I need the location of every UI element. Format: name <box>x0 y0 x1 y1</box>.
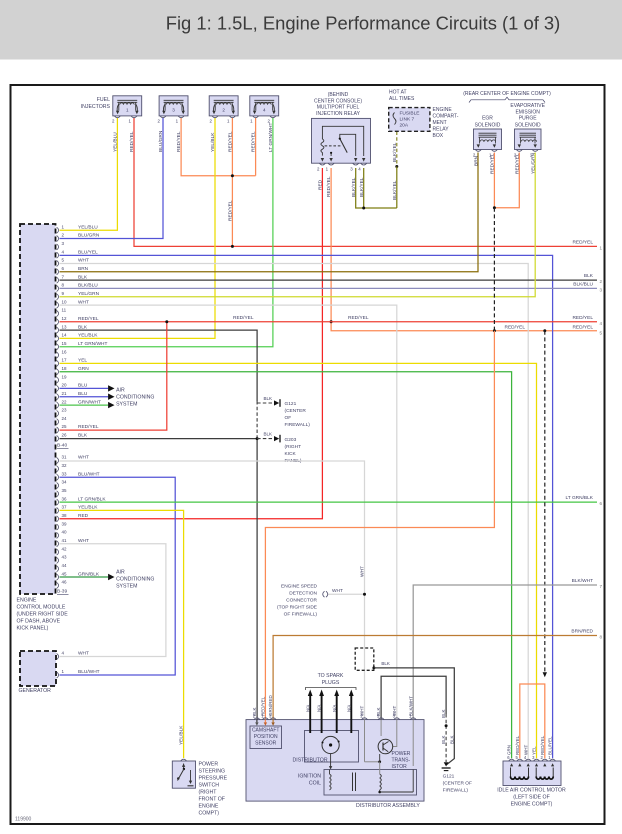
solenoid pin 2 <box>516 150 522 152</box>
svg-text:YEL: YEL <box>532 746 537 755</box>
distributor pin 5 <box>378 718 384 720</box>
svg-text:ALL TIMES: ALL TIMES <box>389 96 415 102</box>
relay link dashed <box>325 145 342 147</box>
svg-text:RED: RED <box>318 179 324 190</box>
solenoid pin 1 <box>491 150 497 152</box>
ECM pin 32 <box>57 466 59 472</box>
svg-text:WHT: WHT <box>78 455 89 461</box>
svg-text:ENGINE: ENGINE <box>433 107 453 113</box>
svg-text:4: 4 <box>263 108 266 113</box>
svg-text:RED/YEL: RED/YEL <box>540 735 545 755</box>
svg-text:20A: 20A <box>400 123 409 129</box>
svg-text:YEL/BLK: YEL/BLK <box>78 333 98 339</box>
injector pin 2 <box>114 116 120 118</box>
svg-text:RED/YEL: RED/YEL <box>505 324 526 330</box>
svg-text:DISTRIBUTOR: DISTRIBUTOR <box>293 757 328 763</box>
junction pin25 on line4 <box>165 320 168 323</box>
svg-text:BLK/YEL: BLK/YEL <box>359 177 365 197</box>
svg-text:YEL/BLU: YEL/BLU <box>78 224 98 230</box>
svg-text:44: 44 <box>62 563 68 568</box>
spark plug wire 1 <box>309 695 311 733</box>
ECM pin 13 BLK <box>57 327 59 333</box>
svg-text:SYSTEM: SYSTEM <box>116 583 137 589</box>
wire BLU/YEL ECM pin4 to IAC pin1 <box>60 255 553 758</box>
svg-text:EMISSION: EMISSION <box>515 109 540 115</box>
wire YEL ECM pin17 to IAC pin3 <box>60 363 537 758</box>
svg-text:BLK/YEL: BLK/YEL <box>351 177 357 197</box>
svg-text:BLU/YEL: BLU/YEL <box>548 736 553 755</box>
svg-text:BOX: BOX <box>433 133 444 139</box>
svg-text:COMPT): COMPT) <box>199 810 220 816</box>
svg-text:PRESSURE: PRESSURE <box>199 775 228 781</box>
svg-text:BLK: BLK <box>264 396 273 401</box>
svg-text:GRN/WHT: GRN/WHT <box>78 399 101 405</box>
junction relay RED/YEL on line4 <box>330 320 333 323</box>
ECM pin 10 WHT <box>57 302 59 308</box>
svg-text:32: 32 <box>62 463 68 468</box>
arrow AC pin45 <box>108 574 114 580</box>
IAC pin 4 WHT <box>525 759 531 761</box>
svg-text:13: 13 <box>62 324 68 329</box>
svg-text:(BEHIND: (BEHIND <box>328 92 349 98</box>
svg-text:OF: OF <box>285 415 292 421</box>
wire WHT engine speed detection stub <box>328 593 365 595</box>
svg-text:WHT: WHT <box>523 745 528 755</box>
wire LT GRN/WHT injector4 pin2 to ECM pin15 <box>60 118 273 347</box>
svg-text:10: 10 <box>62 299 68 304</box>
svg-text:WHT: WHT <box>332 588 343 594</box>
svg-text:B-40: B-40 <box>57 443 67 449</box>
junction BLK splice G121 <box>445 724 448 727</box>
ECM pin 20 BLU <box>57 385 59 391</box>
ECM pin 44 <box>57 566 59 572</box>
svg-text:LT GRN/BLK: LT GRN/BLK <box>565 495 593 501</box>
junction EGR EVAP splice <box>493 206 496 209</box>
svg-text:19: 19 <box>62 374 68 379</box>
svg-text:GENERATOR: GENERATOR <box>19 688 52 694</box>
svg-text:BLK/BLU: BLK/BLU <box>78 283 98 289</box>
svg-text:BLK/BLU: BLK/BLU <box>573 281 593 287</box>
wire GRN/BLK ECM pin45 to AC <box>60 576 109 578</box>
junction dashed on line5 <box>493 329 496 332</box>
header band <box>0 0 622 60</box>
svg-text:N/A: N/A <box>346 705 351 712</box>
svg-text:SENSOR: SENSOR <box>255 740 277 746</box>
svg-text:IGNITION: IGNITION <box>298 774 321 780</box>
camshaft pin stubs <box>256 720 258 723</box>
svg-text:BLK: BLK <box>381 661 390 666</box>
svg-text:RED/YEL: RED/YEL <box>78 424 99 430</box>
PSP switch contacts <box>183 768 185 770</box>
junction line1 splice <box>231 245 234 248</box>
svg-text:3: 3 <box>172 108 175 113</box>
ECM pin 11 <box>57 311 59 317</box>
wire BLK/WHT distributor pin1 to right edge line 7 <box>413 585 597 720</box>
svg-text:43: 43 <box>62 555 68 560</box>
fusible link symbol <box>393 113 396 125</box>
wire RED/YEL EVAP pin2 drop <box>494 153 519 208</box>
wire BLU ECM pin21 to AC <box>60 396 109 398</box>
distributor pin 1 <box>410 718 416 720</box>
ECM pin 40 <box>57 532 59 538</box>
svg-text:RED/YEL: RED/YEL <box>261 696 266 716</box>
svg-text:G203: G203 <box>285 437 297 443</box>
wire RED/YEL line5 to camshaft sensor pin1 <box>265 331 494 720</box>
svg-text:WHT: WHT <box>392 706 397 716</box>
svg-text:EVAPORATIVE: EVAPORATIVE <box>510 103 545 109</box>
junction BLK/YEL pin4 <box>362 207 365 210</box>
distributor assembly box <box>246 720 424 802</box>
svg-text:38: 38 <box>62 513 68 518</box>
generator pin 1 BLU/WHT <box>57 672 59 678</box>
ECM pin 18 GRN <box>57 369 59 375</box>
IAC coil A <box>510 768 512 777</box>
svg-text:YEL/GRN: YEL/GRN <box>530 152 536 174</box>
relay pin 2 <box>319 163 325 165</box>
svg-text:FIREWALL): FIREWALL) <box>443 788 469 794</box>
distributor circle <box>322 736 339 753</box>
ECM pin 38 RED <box>57 516 59 522</box>
relay coil <box>321 139 324 156</box>
svg-text:18: 18 <box>62 366 68 371</box>
svg-text:(RIGHT: (RIGHT <box>199 789 218 795</box>
svg-text:15: 15 <box>62 341 68 346</box>
svg-text:COMPART-: COMPART- <box>433 114 459 120</box>
ECM pin 24 <box>57 419 59 425</box>
svg-text:CENTER CONSOLE): CENTER CONSOLE) <box>314 99 362 105</box>
wire RED/YEL EGR pin1 drop <box>493 153 495 208</box>
wire BLK dashed line5 to IAC <box>544 331 546 672</box>
wire WHT ECM pin10 to distributor pin3 <box>60 305 397 719</box>
svg-text:CONDITIONING: CONDITIONING <box>116 394 154 400</box>
ECM pin 42 <box>57 549 59 555</box>
svg-text:SOLENOID: SOLENOID <box>515 122 541 128</box>
wire WHT ECM pin5 to IAC pin4 <box>60 264 529 759</box>
svg-text:BLU/WHT: BLU/WHT <box>78 669 100 675</box>
svg-text:WHT: WHT <box>360 566 366 577</box>
ECM pin 12 RED/YEL <box>57 319 59 325</box>
wire RED/YEL IAC pins 2 and 5 <box>520 684 545 758</box>
bracket to spark plugs <box>306 688 357 691</box>
svg-text:WHT: WHT <box>360 706 365 716</box>
svg-text:(UNDER RIGHT SIDE: (UNDER RIGHT SIDE <box>17 612 69 618</box>
PSP switch box <box>172 761 195 788</box>
wire YEL/BLK ECM pin37 to PSP switch <box>60 510 184 758</box>
relay pin 4 <box>361 163 367 165</box>
svg-text:RED/YEL: RED/YEL <box>572 325 593 331</box>
ECM pin 16 <box>57 352 59 358</box>
svg-text:21: 21 <box>62 391 68 396</box>
svg-text:COIL: COIL <box>309 781 321 787</box>
injector pin 2 <box>212 116 218 118</box>
svg-text:GRN: GRN <box>507 745 512 755</box>
svg-text:POWER: POWER <box>199 761 219 767</box>
ECM pin 26 BLK <box>57 435 59 441</box>
spark plug wire 3 <box>336 695 338 733</box>
svg-text:INJECTION RELAY: INJECTION RELAY <box>316 111 360 117</box>
svg-text:42: 42 <box>62 546 68 551</box>
distributor pin leads <box>364 720 366 762</box>
svg-text:WHT: WHT <box>78 538 89 544</box>
svg-text:RED/YEL: RED/YEL <box>251 131 257 152</box>
injector pin 2 <box>160 116 166 118</box>
ECM pin 39 <box>57 524 59 530</box>
svg-text:POSITION: POSITION <box>254 734 278 740</box>
wire BLU/GRN injector3 pin2 to ECM pin2 <box>60 118 164 239</box>
junction transistor emitter <box>378 760 381 763</box>
svg-text:40: 40 <box>62 530 68 535</box>
wire BLK dashed EGR drop to line5 <box>493 208 495 331</box>
svg-text:BLK: BLK <box>264 432 273 437</box>
svg-text:CONTROL MODULE: CONTROL MODULE <box>17 605 66 611</box>
svg-text:35: 35 <box>62 488 68 493</box>
svg-text:HOT AT: HOT AT <box>389 90 407 96</box>
ECM box <box>20 224 56 594</box>
svg-text:RED/YEL: RED/YEL <box>326 176 332 197</box>
svg-text:LT GRN/WHT: LT GRN/WHT <box>78 341 107 347</box>
svg-text:RED/YEL: RED/YEL <box>514 153 520 174</box>
svg-text:YEL/BLK: YEL/BLK <box>179 725 185 745</box>
injector pin 2 <box>270 116 276 118</box>
ignition coil secondary <box>380 774 382 778</box>
relay box <box>312 118 371 163</box>
svg-text:39: 39 <box>62 521 68 526</box>
ECM pin 46 <box>57 582 59 588</box>
svg-text:BLK: BLK <box>252 707 257 716</box>
wire LT GRN/BLK ECM pin36 to right edge line 6 <box>60 501 598 503</box>
fuel injector 4 <box>250 96 279 116</box>
solenoid pin 1 <box>532 150 538 152</box>
svg-text:46: 46 <box>62 580 68 585</box>
svg-text:SOLENOID: SOLENOID <box>475 122 501 128</box>
ECM pin 6 BRN <box>57 269 59 275</box>
ignition coil core <box>352 773 354 792</box>
svg-text:CAMSHAFT: CAMSHAFT <box>252 728 280 734</box>
svg-text:YEL/GRN: YEL/GRN <box>78 291 100 297</box>
svg-text:YEL: YEL <box>78 358 87 364</box>
wire BLK/YEL fusible link drop solid <box>396 167 398 209</box>
svg-text:RELAY: RELAY <box>433 127 450 133</box>
svg-text:2: 2 <box>222 108 225 113</box>
wire RED/YEL relay pin1 to right edge line 5 <box>331 168 597 331</box>
wire BLK ECM pin7 to right edge line 2 <box>60 279 598 281</box>
svg-text:FUEL: FUEL <box>97 97 110 103</box>
junction injector RED/YEL splice <box>231 174 234 177</box>
svg-text:DETECTION: DETECTION <box>289 591 317 597</box>
svg-text:ENGINE COMPT): ENGINE COMPT) <box>511 801 553 807</box>
ECM pin 23 <box>57 410 59 416</box>
svg-text:BLK: BLK <box>78 433 88 439</box>
junction speed detection tap <box>363 593 366 596</box>
svg-text:STEERING: STEERING <box>199 768 226 774</box>
svg-text:BLK: BLK <box>449 735 454 744</box>
ECM pin 41 WHT <box>57 541 59 547</box>
wire BLK dashed to G121 lower <box>445 714 447 762</box>
svg-text:BLU/GRN: BLU/GRN <box>158 130 164 152</box>
spark plug wire 2 <box>321 695 323 733</box>
camshaft pin arrows <box>255 722 258 725</box>
camshaft sensor pin 3 <box>270 718 276 720</box>
camshaft position sensor box <box>250 726 282 749</box>
svg-text:N/A: N/A <box>317 705 322 712</box>
wire BLK/YEL relay pin3 to junction <box>356 168 397 208</box>
svg-text:RED/YEL: RED/YEL <box>176 131 182 152</box>
PSP internal arrow up <box>182 764 185 767</box>
svg-text:14: 14 <box>62 333 68 338</box>
svg-text:36: 36 <box>62 496 68 501</box>
svg-text:(CENTER OF: (CENTER OF <box>443 781 472 787</box>
distributor inner box <box>305 731 359 763</box>
svg-text:LT GRN/WHT: LT GRN/WHT <box>268 123 274 152</box>
ECM pin 21 BLU <box>57 394 59 400</box>
injector pin 1 <box>178 116 184 118</box>
wire BLK/YEL relay pin4 stub <box>363 168 365 208</box>
wire RED/YEL ECM pin25 to line4 <box>60 322 167 430</box>
power transistor circle <box>378 739 393 754</box>
svg-text:B-39: B-39 <box>57 589 67 595</box>
generator pin 4 WHT <box>57 654 59 660</box>
svg-text:RED/YEL: RED/YEL <box>348 315 369 321</box>
IAC coil B <box>535 768 537 777</box>
svg-text:PLUGS: PLUGS <box>322 680 340 686</box>
wire BLK dashed stub to G121 <box>257 402 275 404</box>
svg-text:FRONT OF: FRONT OF <box>199 796 225 802</box>
ECM pin 34 <box>57 483 59 489</box>
svg-text:G121: G121 <box>443 774 455 780</box>
svg-text:BLK: BLK <box>441 735 446 744</box>
svg-text:BLK/WHT: BLK/WHT <box>572 578 593 584</box>
svg-text:RED/YEL: RED/YEL <box>228 200 234 221</box>
svg-text:11: 11 <box>62 308 67 313</box>
ECM pin 5 WHT <box>57 261 59 267</box>
relay internal mid bus <box>340 134 356 156</box>
svg-text:AIR: AIR <box>116 569 125 575</box>
svg-text:YEL/BLK: YEL/BLK <box>78 505 98 511</box>
ECM pin 8 BLK/BLU <box>57 286 59 292</box>
svg-text:GRN: GRN <box>78 366 89 372</box>
svg-text:(LEFT SIDE OF: (LEFT SIDE OF <box>513 794 550 800</box>
svg-text:33: 33 <box>62 471 68 476</box>
EGR solenoid arrows <box>477 144 480 147</box>
svg-text:POWER: POWER <box>392 751 411 757</box>
camshaft sensor pin 2 <box>254 718 260 720</box>
svg-text:SWITCH: SWITCH <box>199 782 220 788</box>
wire RED/YEL injector3 pin1 jumper <box>181 118 256 176</box>
svg-text:TRANS-: TRANS- <box>392 758 411 764</box>
svg-text:41: 41 <box>62 538 68 543</box>
svg-text:24: 24 <box>62 416 68 421</box>
svg-text:BRN: BRN <box>473 155 479 166</box>
ECM pin 9 YEL/GRN <box>57 294 59 300</box>
svg-text:BLU/YEL: BLU/YEL <box>78 249 98 255</box>
wire RED/YEL injector4 pin1 stub <box>255 118 257 176</box>
svg-text:16: 16 <box>62 349 68 354</box>
svg-text:(CENTER: (CENTER <box>285 408 307 414</box>
svg-text:BLK: BLK <box>584 273 594 279</box>
svg-text:PURGE: PURGE <box>519 116 537 122</box>
wire BLK connector to ground run <box>374 668 454 765</box>
wire BLK camshaft sensor ground run <box>256 439 258 720</box>
ECM pin 2 BLU/GRN <box>57 236 59 242</box>
svg-text:RED/YEL: RED/YEL <box>515 735 520 755</box>
svg-text:BRN/RED: BRN/RED <box>571 629 593 635</box>
relay internal top bus <box>322 126 363 156</box>
wire RED/YEL ECM pin12 to right edge line 4 <box>60 321 598 323</box>
PSP pin <box>181 759 187 761</box>
wire BLK dashed ground segment <box>256 401 258 439</box>
svg-text:MENT: MENT <box>433 120 447 126</box>
svg-text:BLK/WHT: BLK/WHT <box>408 696 413 716</box>
svg-text:FIREWALL): FIREWALL) <box>285 422 311 428</box>
svg-text:23: 23 <box>62 408 68 413</box>
wire BLK distributor pin5 ground run <box>381 676 446 719</box>
svg-text:RED/YEL: RED/YEL <box>228 131 234 152</box>
camshaft sensor pin 1 <box>262 718 268 720</box>
ground G121 center of firewall <box>274 399 280 407</box>
svg-text:(TOP RIGHT SIDE: (TOP RIGHT SIDE <box>277 605 317 611</box>
svg-text:MULTIPORT FUEL: MULTIPORT FUEL <box>317 105 360 111</box>
fuel injector 3 <box>159 96 188 116</box>
svg-text:YEL/BLU: YEL/BLU <box>113 132 119 152</box>
svg-text:BRN: BRN <box>78 266 89 272</box>
EVAP solenoid box <box>515 129 542 150</box>
IAC pin arrows <box>510 763 513 766</box>
injector pin 1 <box>131 116 137 118</box>
IAC pin 5 RED/YEL <box>517 759 523 761</box>
svg-text:BLU: BLU <box>78 391 88 397</box>
wire BLU/WHT ECM pin33 to generator pin1 <box>60 477 176 675</box>
svg-text:AIR: AIR <box>116 387 125 393</box>
svg-text:KICK PANEL): KICK PANEL) <box>17 626 49 632</box>
ECM pin 19 <box>57 377 59 383</box>
distributor pin 2 <box>362 718 368 720</box>
fuel injector 2 <box>209 96 238 116</box>
relay pin arrows <box>321 158 324 162</box>
svg-text:DISTRIBUTOR ASSEMBLY: DISTRIBUTOR ASSEMBLY <box>356 803 420 809</box>
wire RED/YEL injector1 pin1 to right edge line 1 <box>134 118 597 247</box>
svg-text:BLU: BLU <box>78 383 88 389</box>
svg-text:45: 45 <box>62 571 68 576</box>
svg-text:CONDITIONING: CONDITIONING <box>116 576 154 582</box>
svg-text:(RIGHT: (RIGHT <box>285 444 302 450</box>
fuel injector 1 <box>113 96 142 116</box>
svg-text:G121: G121 <box>285 401 297 407</box>
svg-text:N/A: N/A <box>332 705 337 712</box>
generator box <box>20 651 56 686</box>
ground G203 right kick panel <box>274 435 280 443</box>
ECM pin 15 LT GRN/WHT <box>57 344 59 350</box>
wire BLU ECM pin20 to AC <box>60 387 109 389</box>
ignition coil box <box>324 770 417 796</box>
svg-text:RED: RED <box>78 513 89 519</box>
svg-text:EGR: EGR <box>482 116 493 122</box>
svg-text:ENGINE: ENGINE <box>17 598 37 604</box>
wire BLK dashed stub to G203 <box>257 438 275 440</box>
svg-text:OF FIREWALL): OF FIREWALL) <box>284 612 318 618</box>
wire YEL/BLK injector2 pin2 to ECM pin14 <box>60 118 216 339</box>
wire BLK/BLU ECM pin8 to right edge line 3 <box>60 287 598 289</box>
svg-text:BLK/YEL: BLK/YEL <box>392 142 398 162</box>
ECM pin 45 GRN/BLK <box>57 574 59 580</box>
ECM pin 33 BLU/WHT <box>57 474 59 480</box>
wire BLK ECM pin26 <box>60 438 258 440</box>
wire BLK ECM pin13 down <box>60 330 258 401</box>
injector pin 1 <box>253 116 259 118</box>
ignition coil bottom lead <box>379 790 381 792</box>
svg-text:GRN/RED: GRN/RED <box>268 694 273 716</box>
svg-text:37: 37 <box>62 505 68 510</box>
junction fusible link splice <box>395 165 398 168</box>
